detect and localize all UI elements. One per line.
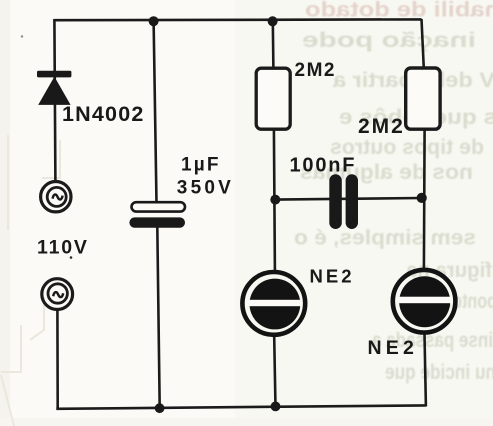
wire: left vertical upper (through diode) [54,19,55,181]
capacitor C1 top plate (outlined) [132,202,186,211]
junction node: 100nF row left [270,195,280,205]
svg-text:NE2: NE2 [368,337,419,359]
wire: top horizontal [54,18,422,21]
wire: R2 to lamp NE2 (right) [423,129,426,269]
svg-text:350V: 350V [177,178,234,199]
junction node: top capacitor branch [149,16,159,26]
wire: 100nF row horizontal [275,198,422,200]
capacitor C2 100nF left plate [329,174,342,229]
capacitor C1 bottom plate (solid) [129,217,185,227]
svg-text:2M2: 2M2 [358,115,405,138]
neon lamp NE2 (left) electrodes [245,279,302,330]
capacitor C2 100nF right plate [346,174,358,229]
junction node: top R1 branch [268,16,278,26]
AC source G1 (upper) [41,182,71,212]
wire: lamp NE2 (right) bottom [425,334,426,406]
faint bleed-through figure lines, bottom-left [1,135,60,426]
svg-text:100nF: 100nF [290,154,357,176]
svg-text:1N4002: 1N4002 [62,102,145,126]
svg-text:1µF: 1µF [181,155,221,176]
diode D1 1N4002 cathode bar [37,71,71,78]
neon lamp NE2 (right) electrodes [396,276,453,327]
AC source G2 (lower) [42,279,73,310]
svg-text:NE2: NE2 [310,265,355,286]
wire: bottom horizontal [56,405,426,408]
stray mark below 110V [70,256,73,259]
wire: capacitor branch lower [157,227,159,409]
wire: resistor R1 branch top [271,21,274,70]
svg-text:inação pode: inação pode [302,29,476,52]
bleed-through mirrored text from reverse page [294,0,493,384]
neon lamp NE2 (left) bulb [242,272,305,335]
wire: right vertical from top corner to R2 [422,19,424,69]
junction node: bottom capacitor branch [155,403,165,413]
resistor R1 body [256,68,290,129]
wire: R1 to lamp NE2 (left) [274,129,275,271]
svg-text:2M2: 2M2 [295,60,336,81]
resistor R2 body [406,68,440,129]
wire: left vertical lower [56,310,59,409]
svg-text:110V: 110V [37,237,89,259]
junction node: 100nF row right [417,193,427,203]
svg-text:nu incide que: nu incide que [385,361,493,384]
neon lamp NE2 (right) bulb [393,270,456,333]
svg-text:sem simples, é o: sem simples, é o [294,227,476,250]
wire: capacitor branch upper [154,21,157,204]
diode D1 1N4002 triangle [38,77,70,105]
stray speck top-left [21,35,23,37]
wire: lamp NE2 (left) bottom [274,337,275,408]
junction node: bottom lamp branch [271,402,281,412]
